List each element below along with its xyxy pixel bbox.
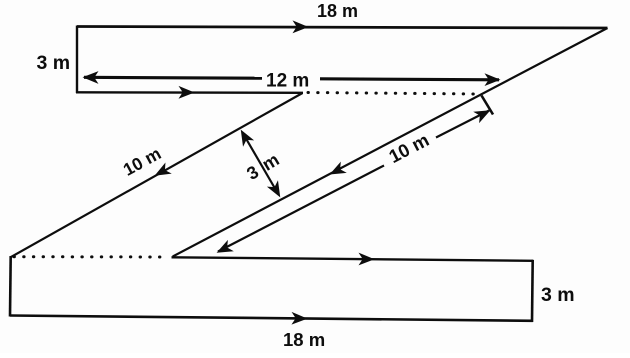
arrow on top edge [293,20,309,33]
lower arrowhead of right 10 m dimension [214,240,234,259]
12 m left arrowhead [83,71,99,84]
arrow on left diagonal [152,162,172,181]
12 m dimension line left segment [84,76,262,80]
arrow on bottom bar bottom edge [291,312,307,325]
arrow on main diagonal [327,162,347,181]
bottom bar top edge [172,257,534,261]
svg-text:10 m: 10 m [385,129,432,167]
svg-text:3 m: 3 m [243,148,284,183]
arrow on top bar bottom edge [179,86,195,99]
bottom bar left edge [9,256,12,317]
dotted extension of top bar bottom edge [308,93,480,95]
svg-text:3 m: 3 m [541,284,575,306]
svg-text:18 m: 18 m [283,329,325,350]
arrow on bottom bar top edge [359,253,375,266]
top bar bottom edge [76,91,303,94]
dotted left part of bottom bar top edge [14,255,168,258]
svg-text:18 m: 18 m [317,1,358,21]
left diagonal of slanted band [11,93,303,257]
bottom bar right edge (3 m side) [531,260,534,322]
bottom bar bottom edge (18 m side) [10,316,533,321]
top bar left edge (3 m side) [76,26,78,94]
svg-text:3 m: 3 m [37,52,71,74]
10 m dimension line (right), lower segment [218,166,384,252]
tick at top of right 10 m dimension [482,96,494,115]
3 m width dimension double arrow [243,133,279,195]
main diagonal from top-right vertex [173,28,608,257]
upper arrowhead of right 10 m dimension [473,104,493,123]
top bar top edge (18 m side) [77,27,608,29]
svg-text:12 m: 12 m [266,71,309,92]
10 m dimension line (right), upper segment [436,111,489,138]
12 m right arrowhead [485,73,501,86]
12 m dimension line right segment [320,79,499,80]
